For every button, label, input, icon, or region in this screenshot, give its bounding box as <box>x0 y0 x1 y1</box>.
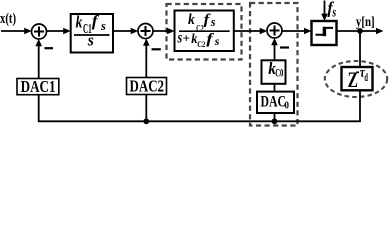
svg-text:s: s <box>214 34 220 48</box>
svg-text:+: + <box>183 31 190 45</box>
svg-text:s: s <box>87 32 94 49</box>
svg-text:x(t): x(t) <box>0 11 16 27</box>
svg-text:k: k <box>76 13 83 32</box>
svg-text:DAC: DAC <box>261 93 286 111</box>
svg-text:C2: C2 <box>197 39 205 49</box>
svg-text:DAC1: DAC1 <box>21 79 56 97</box>
svg-text:k: k <box>188 12 195 27</box>
svg-text:s: s <box>332 4 337 20</box>
svg-text:Z: Z <box>348 69 358 93</box>
svg-text:C0: C0 <box>275 68 283 80</box>
svg-text:d: d <box>364 71 368 85</box>
svg-text:DAC2: DAC2 <box>130 78 165 96</box>
svg-text:y[n]: y[n] <box>356 14 375 30</box>
svg-text:0: 0 <box>285 100 290 112</box>
svg-text:s: s <box>100 19 106 33</box>
svg-text:s: s <box>210 15 216 29</box>
